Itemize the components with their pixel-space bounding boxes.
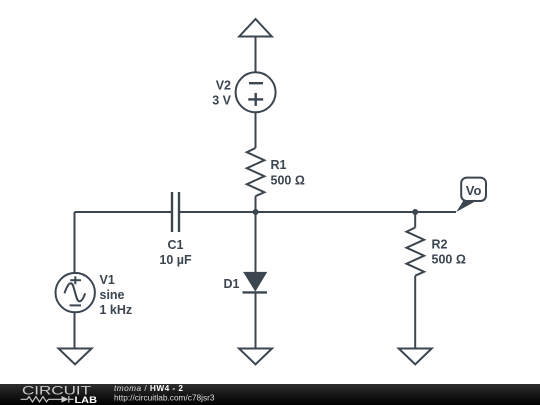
svg-text:R2: R2 bbox=[432, 238, 448, 252]
wire: V1 bottom to left ground bbox=[74, 312, 76, 348]
svg-text:R1: R1 bbox=[271, 158, 287, 172]
wire: C1 right plate to Vo pointer (main horizontal net) bbox=[180, 211, 456, 213]
svg-text:tmoma / HW4 - 2: tmoma / HW4 - 2 bbox=[114, 383, 183, 393]
resistor R2 bbox=[407, 228, 425, 276]
resistor R1 bbox=[247, 148, 265, 196]
wire: supply arrow to V2 top bbox=[255, 37, 257, 73]
wire: left node horizontal (V1 branch to C1 left plate) bbox=[75, 211, 172, 213]
ground (middle) bbox=[239, 349, 272, 365]
ground (left) bbox=[59, 349, 92, 365]
svg-text:LAB: LAB bbox=[75, 395, 98, 405]
voltage source V1 (sine) bbox=[55, 273, 94, 312]
svg-text:1 kHz: 1 kHz bbox=[100, 303, 133, 317]
svg-text:3 V: 3 V bbox=[212, 94, 231, 108]
wire: V2 bottom to R1 bbox=[255, 112, 257, 148]
capacitor C1 bbox=[172, 192, 179, 232]
svg-text:10 µF: 10 µF bbox=[159, 253, 192, 267]
svg-text:V1: V1 bbox=[100, 273, 115, 287]
node flag Vo bbox=[456, 178, 486, 212]
CircuitLab logo zigzag + diode bbox=[21, 396, 74, 403]
diode D1 bbox=[243, 272, 268, 292]
wire: R2 node down to R2 top bbox=[414, 212, 416, 228]
svg-text:sine: sine bbox=[100, 288, 125, 302]
wire: R2 bottom to right ground bbox=[414, 276, 416, 349]
ground (right) bbox=[399, 349, 432, 365]
svg-text:500 Ω: 500 Ω bbox=[432, 253, 466, 267]
wire: left node down to V1 top bbox=[74, 212, 76, 273]
svg-text:Vo: Vo bbox=[466, 183, 482, 198]
svg-text:500 Ω: 500 Ω bbox=[271, 174, 305, 188]
wire: D1 cathode to middle ground bbox=[255, 292, 257, 348]
junction dot at R2 node bbox=[412, 209, 418, 215]
svg-text:C1: C1 bbox=[168, 238, 184, 252]
junction dot at center node bbox=[253, 209, 259, 215]
wire: R1 bottom to center junction bbox=[255, 196, 257, 212]
svg-text:V2: V2 bbox=[216, 79, 231, 93]
power flag arrow (top supply node) bbox=[239, 19, 272, 37]
svg-text:http://circuitlab.com/c78jsr3: http://circuitlab.com/c78jsr3 bbox=[114, 393, 215, 403]
svg-text:D1: D1 bbox=[224, 277, 240, 291]
voltage source V2 bbox=[236, 72, 276, 112]
wire: center junction down to D1 anode bbox=[255, 212, 257, 272]
